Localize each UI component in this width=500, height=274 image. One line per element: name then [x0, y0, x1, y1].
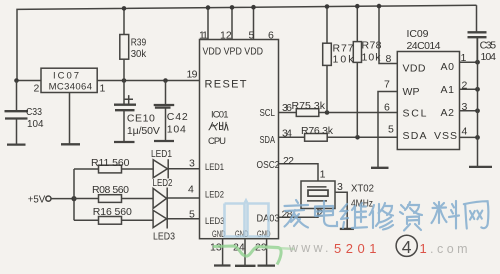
- ground right bus: [469, 166, 492, 168]
- svg-text:4: 4: [462, 126, 468, 138]
- svg-text:SDA: SDA: [260, 134, 276, 146]
- wire IC09 pin3 A2: [460, 110, 478, 112]
- ground pin13: [214, 264, 231, 266]
- svg-text:2: 2: [34, 83, 40, 95]
- svg-text:34: 34: [282, 128, 292, 140]
- resistor R75 3k: [296, 109, 319, 117]
- svg-text:XT02: XT02: [351, 183, 374, 195]
- svg-text:LED3: LED3: [205, 216, 225, 227]
- watermark book icon: [225, 201, 269, 237]
- ground C33: [7, 143, 26, 145]
- svg-text:R08 560: R08 560: [92, 184, 129, 196]
- svg-text:A0: A0: [441, 61, 455, 73]
- wire IC01 pin 12 VPD: [231, 7, 233, 39]
- resistor R39: [123, 8, 125, 34]
- svg-text:5: 5: [189, 209, 195, 221]
- char 网: [464, 201, 488, 228]
- svg-text:CPU: CPU: [208, 136, 226, 147]
- svg-text:1: 1: [320, 169, 326, 181]
- wire right bus: [477, 36, 479, 167]
- svg-text:3: 3: [337, 181, 343, 193]
- wire IC09 pin1 A0: [460, 61, 478, 63]
- watermark green swoosh: [213, 246, 281, 265]
- ground IC07: [61, 143, 80, 145]
- svg-text:3: 3: [189, 158, 195, 170]
- wire crystal pin3 to ground: [335, 192, 347, 229]
- wire IC01 GND pin 13: [222, 239, 224, 266]
- ground WP: [371, 167, 389, 169]
- svg-text:4: 4: [188, 184, 194, 196]
- wire IC09 pin2 A1: [460, 88, 478, 90]
- LED LED2: [153, 188, 167, 208]
- svg-text:6: 6: [384, 102, 390, 114]
- resistor R11 560: [74, 168, 99, 170]
- svg-text:VSS: VSS: [434, 130, 457, 142]
- char 资: [400, 202, 422, 231]
- svg-text:R76 3k: R76 3k: [301, 125, 334, 137]
- ground XT02: [340, 228, 354, 230]
- watermark 家电维修资料网: [285, 200, 489, 231]
- ground CE10: [114, 141, 135, 143]
- svg-text:MC34064: MC34064: [49, 82, 92, 93]
- svg-text:104: 104: [481, 51, 497, 63]
- wire +5V to junction: [51, 198, 74, 200]
- ground pin29: [258, 264, 276, 266]
- wire IC09 VDD feed: [379, 6, 397, 63]
- svg-text:104: 104: [27, 118, 44, 130]
- svg-text:LED2: LED2: [153, 178, 173, 189]
- svg-text:IC07: IC07: [53, 71, 79, 82]
- wire IC01 GND pin 29: [266, 239, 268, 266]
- svg-text:1: 1: [100, 83, 106, 95]
- text 外机 drawn: [209, 122, 228, 130]
- svg-text:RESET: RESET: [205, 79, 247, 91]
- svg-text:10k: 10k: [333, 54, 355, 66]
- svg-text:R16 560: R16 560: [93, 206, 132, 218]
- resistor R08 560: [74, 198, 99, 200]
- svg-text:SDA: SDA: [403, 130, 427, 142]
- svg-text:8: 8: [386, 53, 392, 65]
- svg-text:www.: www.: [288, 241, 332, 255]
- svg-text:LED3: LED3: [153, 232, 175, 243]
- capacitor C35: [468, 31, 487, 33]
- svg-text:5: 5: [249, 30, 255, 42]
- resistor R78 10k: [356, 6, 358, 41]
- char 料: [432, 201, 460, 229]
- IC IC01 outdoor-unit CPU: [200, 40, 279, 239]
- svg-text:104: 104: [167, 124, 186, 136]
- svg-text:R11 560: R11 560: [91, 157, 130, 169]
- wire OSC2 pin22: [279, 164, 319, 181]
- svg-text:WP: WP: [403, 86, 420, 98]
- svg-text:30k: 30k: [131, 48, 147, 60]
- svg-text:C33: C33: [26, 106, 42, 118]
- ground C42: [154, 140, 174, 142]
- node junction R39/CE10 on RESET line: [122, 78, 127, 83]
- svg-text:A1: A1: [441, 84, 455, 96]
- circled 4 mark: [396, 235, 417, 256]
- svg-text:LED2: LED2: [205, 189, 224, 200]
- svg-text:VDD VPD VDD: VDD VPD VDD: [203, 47, 264, 58]
- node junction C42 on RESET line: [163, 78, 168, 83]
- svg-text:CE10: CE10: [127, 113, 155, 125]
- svg-text:SCL: SCL: [403, 108, 427, 120]
- svg-text:12: 12: [220, 30, 232, 42]
- char 修: [370, 203, 394, 230]
- wire LED branch vertical: [73, 169, 75, 220]
- svg-text:5201: 5201: [334, 241, 381, 256]
- wire IC09 WP to ground: [378, 92, 397, 168]
- svg-text:IC01: IC01: [211, 110, 229, 121]
- node junction RESET/C33: [14, 78, 19, 83]
- svg-text:5: 5: [388, 124, 394, 136]
- svg-text:R39: R39: [131, 37, 147, 49]
- svg-text:1: 1: [420, 241, 427, 256]
- LED LED3: [153, 210, 167, 227]
- svg-text:7: 7: [384, 79, 390, 91]
- svg-text:4: 4: [402, 237, 412, 257]
- capacitor C42: [165, 81, 167, 105]
- wire IC07 ground lead: [69, 93, 71, 145]
- svg-text:A2: A2: [441, 107, 455, 119]
- wire IC09 pin4 VSS: [460, 136, 478, 138]
- wire C35 feed from rail: [476, 5, 478, 32]
- wire IC01 pin 5 VDD: [253, 7, 255, 39]
- svg-text:.com: .com: [430, 242, 471, 256]
- crystal XT02: [301, 181, 335, 209]
- IC IC09 24C014 EEPROM: [397, 52, 459, 150]
- char 维: [341, 203, 367, 228]
- svg-text:OSC2: OSC2: [257, 159, 280, 171]
- svg-text:LED1: LED1: [151, 149, 172, 160]
- wire IC01 pin 11 VDD: [207, 8, 209, 40]
- wire crystal pin2 DA03: [279, 209, 319, 218]
- svg-text:11: 11: [199, 30, 208, 42]
- svg-text:C35: C35: [480, 40, 497, 52]
- capacitor CE10 electrolytic: [123, 81, 125, 105]
- svg-text:+5V: +5V: [28, 194, 46, 206]
- wire SCL net pin36: [279, 112, 297, 114]
- resistor R77 10k: [326, 7, 328, 44]
- svg-text:1μ/50V: 1μ/50V: [127, 125, 160, 137]
- char 家: [285, 200, 309, 228]
- resistor R16 560: [74, 219, 99, 221]
- svg-text:6: 6: [268, 30, 274, 42]
- svg-text:IC09: IC09: [407, 28, 429, 40]
- svg-text:R75 3k: R75 3k: [292, 100, 326, 112]
- svg-text:C42: C42: [167, 111, 188, 123]
- wire RESET net horizontal: [16, 80, 200, 82]
- wire top +5V rail: [17, 5, 477, 81]
- svg-text:19: 19: [187, 68, 198, 80]
- svg-text:24C014: 24C014: [407, 40, 441, 52]
- resistor R76 3k: [305, 134, 328, 142]
- svg-text:LED1: LED1: [205, 162, 224, 173]
- svg-text:2: 2: [318, 208, 324, 220]
- IC IC07 MC34064 reset detector: [41, 68, 97, 92]
- wire IC01 GND pin 24: [244, 239, 246, 266]
- svg-text:VDD: VDD: [403, 63, 426, 75]
- svg-text:SCL: SCL: [260, 107, 276, 119]
- svg-text:22: 22: [283, 155, 294, 167]
- LED LED1: [153, 160, 167, 178]
- ground pin24: [235, 265, 256, 267]
- char 电: [315, 201, 337, 226]
- capacitor C33: [16, 81, 18, 111]
- wire SDA net pin34: [279, 136, 305, 138]
